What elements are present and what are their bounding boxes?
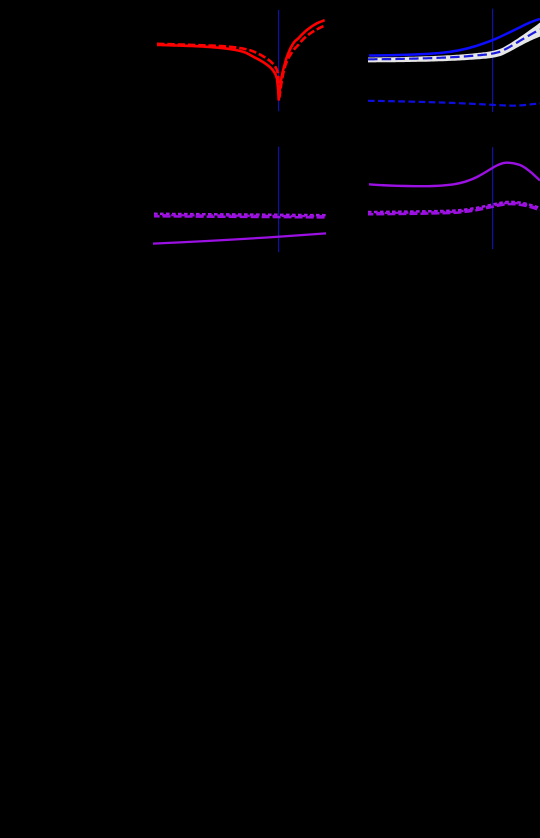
axvline top-right panel	[492, 9, 494, 112]
purple dashed bump line B (bottom-right panel)	[368, 204, 540, 214]
axvline bottom-right panel	[492, 147, 494, 249]
purple dashed bump line A (bottom-right panel)	[368, 202, 540, 212]
red solid curve (lower-left to upper-right, dip at 278.5)	[157, 20, 325, 100]
red dashed curve (upper-left to lower-right, dip at 277.8)	[157, 26, 325, 98]
purple dashed line A (bottom-left panel)	[154, 214, 326, 215]
purple dashed line B (bottom-left panel)	[154, 216, 326, 217]
blue dashed curve inside band	[368, 29, 540, 59]
axvline top-left panel	[278, 10, 280, 111]
blue lower dashed line (top-right panel)	[368, 101, 540, 106]
purple dashed line C filler (bottom-left panel)	[154, 215, 326, 216]
purple dashed bump line C filler (bottom-right panel)	[368, 203, 540, 213]
blue solid curve (top-right panel)	[369, 19, 540, 56]
purple solid curve with bump (bottom-right panel)	[369, 163, 540, 187]
axvline bottom-left panel	[278, 147, 280, 253]
grey confidence band (top-right panel)	[368, 23, 540, 63]
purple solid line (bottom-left panel)	[153, 233, 326, 243]
